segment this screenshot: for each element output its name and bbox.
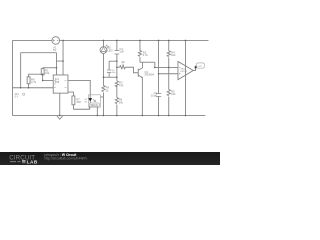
svg-text:4.7k: 4.7k bbox=[31, 80, 37, 84]
svg-text:47k: 47k bbox=[119, 83, 124, 87]
svg-text:10k: 10k bbox=[45, 71, 50, 75]
svg-text:0 V: 0 V bbox=[15, 96, 19, 98]
svg-text:http://circuitlab.com/c/b4487v: http://circuitlab.com/c/b4487v bbox=[45, 156, 88, 160]
svg-text:10k: 10k bbox=[119, 100, 124, 104]
svg-text:330: 330 bbox=[76, 100, 81, 104]
svg-text:1uF: 1uF bbox=[119, 50, 124, 54]
svg-text:LED: LED bbox=[107, 48, 112, 52]
svg-text:5V: 5V bbox=[53, 48, 56, 52]
svg-text:OUT: OUT bbox=[198, 66, 203, 68]
svg-text:4.7k: 4.7k bbox=[143, 53, 149, 57]
svg-text:555: 555 bbox=[55, 80, 60, 84]
svg-text:562mV: 562mV bbox=[90, 104, 98, 107]
svg-text:10k: 10k bbox=[171, 92, 176, 96]
svg-text:LM741: LM741 bbox=[180, 71, 187, 73]
svg-text:10k: 10k bbox=[171, 53, 176, 57]
svg-text:10uF: 10uF bbox=[151, 94, 157, 98]
svg-text:2N3904: 2N3904 bbox=[145, 73, 155, 77]
svg-text:LAB: LAB bbox=[27, 159, 38, 164]
